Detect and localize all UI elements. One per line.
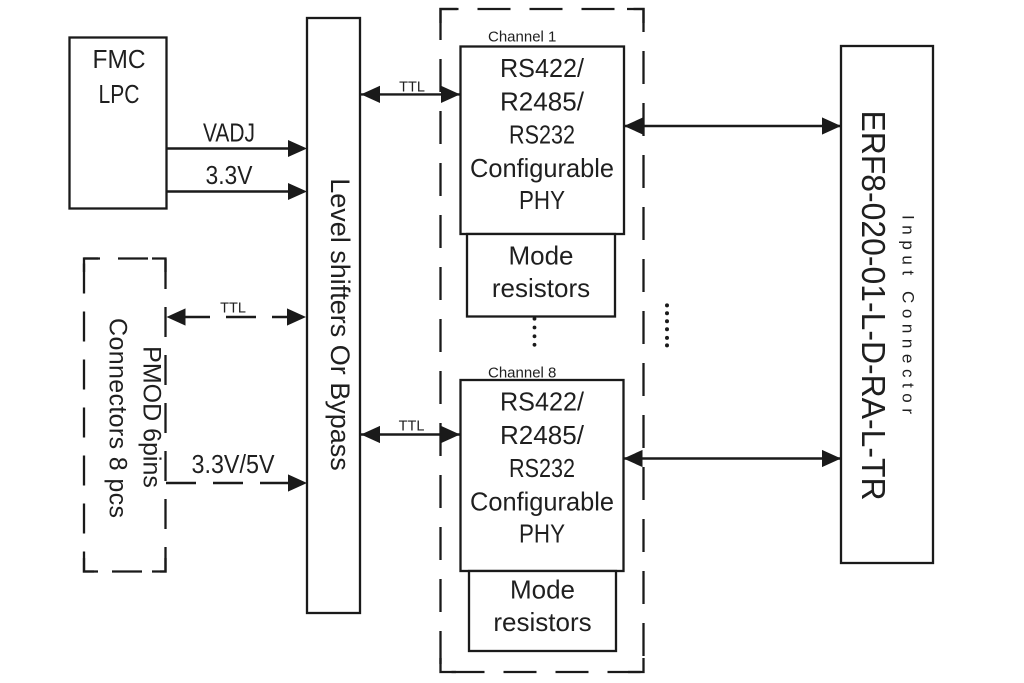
svg-text:PMOD 6pins: PMOD 6pins	[138, 346, 166, 488]
input connector box	[841, 46, 933, 563]
svg-text:Configurable: Configurable	[470, 487, 614, 517]
svg-text:FMC: FMC	[93, 44, 146, 74]
svg-text:PHY: PHY	[519, 185, 565, 215]
level shifters box	[307, 18, 360, 613]
wire 3.3V/5V (PMOD to level shifters, dashed)	[166, 474, 307, 491]
wire TTL (level shifters to channel 1, double arrow)	[361, 86, 460, 103]
svg-text:Mode: Mode	[508, 241, 573, 271]
svg-text:Configurable: Configurable	[470, 153, 614, 183]
svg-text:3.3V/5V: 3.3V/5V	[192, 449, 276, 479]
svg-text:R2485/: R2485/	[500, 87, 585, 117]
svg-text:Connectors 8 pcs: Connectors 8 pcs	[104, 318, 132, 518]
FMC LPC box	[70, 38, 167, 209]
svg-text:RS232: RS232	[509, 453, 575, 483]
wire VADJ (FMC to level shifters)	[167, 140, 307, 157]
svg-text:TTL: TTL	[220, 301, 246, 317]
channel 8 mode resistors box	[469, 571, 616, 651]
svg-text:3.3V: 3.3V	[206, 160, 254, 190]
ellipsis dots below channel 1 mode resistors	[533, 317, 537, 347]
wire 3.3V (FMC to level shifters)	[167, 183, 307, 200]
wire TTL (level shifters to channel 8, double arrow)	[361, 426, 460, 443]
channel 1 mode resistors box	[467, 234, 615, 317]
svg-text:Input Connector: Input Connector	[899, 215, 918, 414]
svg-text:PHY: PHY	[519, 519, 565, 549]
svg-text:VADJ: VADJ	[203, 118, 255, 148]
svg-text:R2485/: R2485/	[500, 420, 585, 450]
svg-text:RS422/: RS422/	[500, 53, 585, 83]
PMOD 6pins connector box	[84, 259, 166, 572]
svg-text:TTL: TTL	[399, 80, 425, 96]
wire channel 8 to input connector (double arrow)	[624, 450, 842, 467]
svg-text:RS232: RS232	[509, 120, 575, 150]
svg-text:LPC: LPC	[99, 79, 140, 109]
channel 8 PHY box	[461, 380, 624, 571]
svg-text:Level shifters Or Bypass: Level shifters Or Bypass	[325, 178, 355, 471]
svg-text:resistors: resistors	[492, 273, 590, 303]
ellipsis dots right of channels	[665, 303, 669, 347]
wire channel 1 to input connector (double arrow)	[624, 117, 841, 134]
svg-text:Mode: Mode	[510, 575, 575, 605]
svg-text:TTL: TTL	[399, 419, 425, 435]
wire TTL (PMOD to level shifters, dashed, double arrow)	[167, 308, 307, 325]
svg-text:RS422/: RS422/	[500, 387, 585, 417]
channel 1 PHY box	[461, 47, 625, 235]
svg-text:resistors: resistors	[493, 607, 591, 637]
svg-text:ERF8-020-01-L-D-RA-L-TR: ERF8-020-01-L-D-RA-L-TR	[855, 111, 892, 501]
channels dashed container	[441, 9, 644, 672]
svg-text:Channel 1: Channel 1	[488, 29, 556, 46]
